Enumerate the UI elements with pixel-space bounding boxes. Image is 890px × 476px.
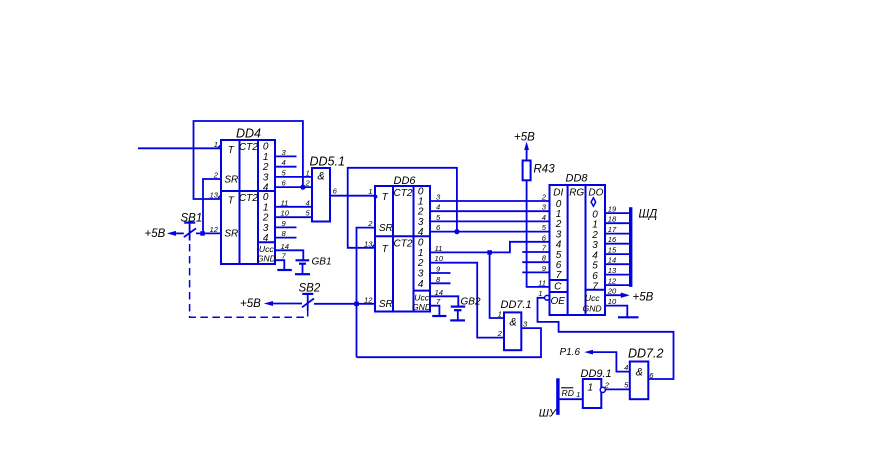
wire mechanical link SB1-SB2 (dashed): [190, 244, 308, 317]
node junction DD4 pin6 feedback: [300, 185, 305, 190]
svg-text:OE: OE: [550, 296, 565, 307]
svg-text:4: 4: [418, 227, 424, 238]
svg-text:1: 1: [214, 140, 218, 149]
svg-text:4: 4: [542, 213, 546, 222]
wire DD8 pin 8 stub: [522, 261, 549, 263]
svg-text:GB1: GB1: [312, 257, 332, 268]
svg-text:GND: GND: [583, 304, 602, 314]
wire feedback DD4 out4 to pin 13: [194, 121, 303, 199]
svg-text:T: T: [382, 192, 389, 203]
wire DD6 pin 5 to DD8 pin 4: [430, 220, 550, 222]
svg-text:T: T: [228, 145, 235, 156]
svg-text:+5В: +5В: [633, 292, 654, 304]
svg-text:DO: DO: [588, 187, 603, 198]
svg-text:4: 4: [263, 233, 269, 244]
counter DD6: [364, 175, 444, 312]
wire input to DD4 pin 1: [138, 147, 221, 149]
wire DD6 pin 10 to DD7.1 pin 2: [430, 263, 504, 338]
gate DD7.1: [497, 299, 532, 350]
pin inversion circle DD8 OE: [545, 295, 550, 300]
bus ShD data bus: [629, 207, 632, 287]
svg-text:Ucc: Ucc: [414, 292, 430, 302]
wire DD4 pin 4 stub: [275, 166, 297, 168]
svg-text:1: 1: [368, 187, 372, 196]
svg-text:4: 4: [418, 279, 424, 290]
svg-text:13: 13: [210, 191, 219, 200]
wire SB2 to DD6 pin 12: [314, 303, 375, 305]
svg-text:SR: SR: [379, 223, 393, 234]
wire DD8 pin 7 stub: [522, 251, 549, 253]
wire DD8 pin 10 GND: [605, 306, 627, 318]
ground DD4 pin 7: [277, 269, 292, 271]
svg-text:GND: GND: [257, 254, 276, 264]
svg-text:2: 2: [497, 329, 503, 338]
wire DO 2 to bus: [605, 233, 629, 235]
svg-text:RG: RG: [569, 187, 584, 198]
+5V source R43 top: [514, 132, 535, 161]
svg-text:SR: SR: [224, 175, 238, 186]
wire DD8 pin 9 stub: [522, 271, 549, 273]
svg-text:1: 1: [576, 390, 580, 399]
svg-text:SB2: SB2: [299, 283, 321, 295]
bus ShU control bus: [556, 378, 559, 415]
svg-text:+5В: +5В: [514, 132, 535, 144]
svg-text:Ucc: Ucc: [585, 293, 601, 303]
gate DD7.2: [624, 347, 663, 400]
svg-text:GND: GND: [412, 302, 431, 312]
svg-text:DD7.2: DD7.2: [628, 347, 663, 361]
svg-text:1: 1: [588, 382, 594, 393]
svg-text:4: 4: [305, 198, 309, 207]
svg-text:2: 2: [541, 193, 547, 202]
wire DD5.1 out to DD6 pin 1: [330, 195, 375, 197]
svg-text:6: 6: [592, 271, 598, 282]
svg-text:DD9.1: DD9.1: [581, 368, 612, 380]
svg-text:DI: DI: [553, 187, 563, 198]
+5V source SB1: [145, 228, 184, 240]
wire DO 3 to bus: [605, 243, 629, 245]
node label RD with overline, pin 1: [561, 388, 580, 399]
wire DD6 pin 2 to SR rail: [357, 228, 376, 358]
op-amp gate DD5.1: [304, 155, 344, 222]
svg-text:ШД: ШД: [639, 209, 658, 221]
wire DD4 pin 6 to DD5.1 pin 2: [275, 186, 312, 188]
node junction SB1 SR rail: [200, 231, 205, 236]
wire DD4 pin 9 stub: [275, 226, 297, 228]
wire DO 5 to bus: [605, 263, 629, 265]
ground DD6 pin 7: [432, 315, 446, 317]
svg-text:7: 7: [592, 281, 598, 292]
wire DD4 pin 8 stub: [275, 237, 297, 239]
svg-text:2: 2: [304, 179, 310, 188]
svg-text:DD4: DD4: [236, 127, 261, 141]
svg-text:5: 5: [592, 260, 598, 271]
wire DD6 pin 3 to DD8 pin 2: [430, 200, 550, 202]
svg-text:&: &: [636, 367, 643, 379]
svg-text:&: &: [509, 317, 516, 329]
wire R43 to DD8 pin 11 C: [527, 180, 550, 287]
wire DD6 pin 8 stub: [430, 282, 451, 284]
ground DD8 pin 10: [618, 316, 639, 318]
svg-text:3: 3: [592, 240, 598, 251]
wire DO 0 to bus: [605, 212, 629, 214]
svg-text:P1.6: P1.6: [560, 347, 581, 358]
switch SB1: [181, 213, 203, 241]
register DD8: [538, 173, 617, 316]
svg-text:+5В: +5В: [240, 298, 261, 310]
node P1.6 arrow: [560, 347, 594, 358]
+5V source SB2: [240, 298, 302, 310]
wire feedback DD6 out4 to pin 13: [348, 168, 457, 248]
svg-text:11: 11: [538, 278, 546, 287]
wire DD4 pin 14 Ucc to GB1: [275, 250, 303, 260]
node junction DD6 pin6 feedback: [454, 229, 459, 234]
svg-text:4: 4: [624, 363, 628, 372]
wire DD6 pin 14 Ucc to GB2: [430, 296, 458, 306]
svg-text:R43: R43: [534, 164, 556, 176]
svg-text:1: 1: [263, 202, 269, 213]
wire SB1 to DD4 pin 12: [196, 232, 221, 234]
svg-text:C: C: [554, 282, 562, 293]
wire DD6 pin 11 to DD8 pin 6: [430, 242, 550, 253]
wire DD4 pin 11 to DD5.1 pin 4: [275, 206, 312, 208]
svg-text:SR: SR: [379, 299, 393, 310]
svg-text:DD7.1: DD7.1: [501, 299, 532, 311]
wire DD6 pin 9 stub: [430, 272, 451, 274]
svg-text:1: 1: [305, 168, 309, 177]
svg-text:GB2: GB2: [461, 297, 481, 308]
svg-text:2: 2: [213, 171, 219, 180]
svg-text:T: T: [228, 196, 235, 207]
wire DO 1 to bus: [605, 222, 629, 224]
svg-text:DD5.1: DD5.1: [310, 155, 345, 169]
wire DO 6 to bus: [605, 274, 629, 276]
wire DD7.1 out to SR reset rail: [357, 328, 542, 357]
svg-text:RD: RD: [562, 388, 574, 398]
+5V source DD8 pin 20: [621, 292, 654, 304]
svg-text:1: 1: [498, 310, 502, 319]
svg-text:1: 1: [538, 289, 542, 298]
svg-text:2: 2: [367, 219, 373, 228]
svg-text:CT2: CT2: [394, 188, 413, 199]
svg-text:+5В: +5В: [145, 228, 166, 240]
pin inversion circle DD9.1 out: [600, 387, 605, 392]
wire DD6 pin 7 GND: [430, 306, 439, 316]
wire DD4 pin 10 to DD5.1 pin 5: [275, 216, 312, 218]
wire DD8 OE to DD7.2 out: [538, 298, 674, 379]
wire DD4 pin 7 GND: [275, 260, 284, 270]
resistor R43: [523, 161, 556, 181]
svg-text:T: T: [382, 244, 389, 255]
node junction DD6 pin 11 branch: [487, 250, 492, 255]
battery GB2: [450, 297, 481, 321]
counter DD4: [210, 127, 290, 265]
svg-text:SR: SR: [224, 229, 238, 240]
buffer DD9.1: [581, 368, 612, 408]
svg-text:7: 7: [556, 270, 562, 281]
battery GB1: [295, 257, 332, 275]
svg-text:&: &: [317, 171, 324, 183]
wire DD4 pin 2 to SR rail: [203, 179, 221, 233]
wire DD4 pin 5 to DD5.1 pin 1: [275, 176, 312, 178]
svg-text:DD8: DD8: [566, 173, 589, 185]
switch SB2: [299, 283, 321, 311]
node junction SB2 SR rail: [354, 302, 359, 307]
wire DD6 pin 6 to DD8 pin 5: [430, 231, 550, 233]
svg-text:1: 1: [592, 219, 598, 230]
svg-text:CT2: CT2: [394, 238, 413, 249]
svg-text:CT2: CT2: [239, 193, 258, 204]
wire RD input to DD9.1 pin 1: [560, 398, 583, 400]
wire DD9.1 out to DD7.2 pin 5: [605, 388, 629, 390]
svg-text:13: 13: [364, 239, 373, 248]
wire DO 4 to bus: [605, 253, 629, 255]
svg-text:CT2: CT2: [239, 142, 258, 153]
wire DD4 pin 3 stub: [275, 155, 297, 157]
wire DD6 pin 4 to DD8 pin 3: [430, 210, 550, 212]
wire DO 7 to bus: [605, 284, 629, 286]
wire DD8 pin 20 Ucc +5V: [605, 294, 622, 296]
svg-text:Ucc: Ucc: [259, 244, 275, 254]
wire P1.6 tap to DD7.2 pin 4: [591, 352, 630, 372]
svg-text:DD6: DD6: [394, 175, 417, 187]
svg-text:ШУ: ШУ: [539, 408, 557, 420]
wire DD6 pin 11 branch to DD7.1 pin 1: [490, 252, 504, 318]
node DD6 pin 1: [374, 195, 378, 199]
